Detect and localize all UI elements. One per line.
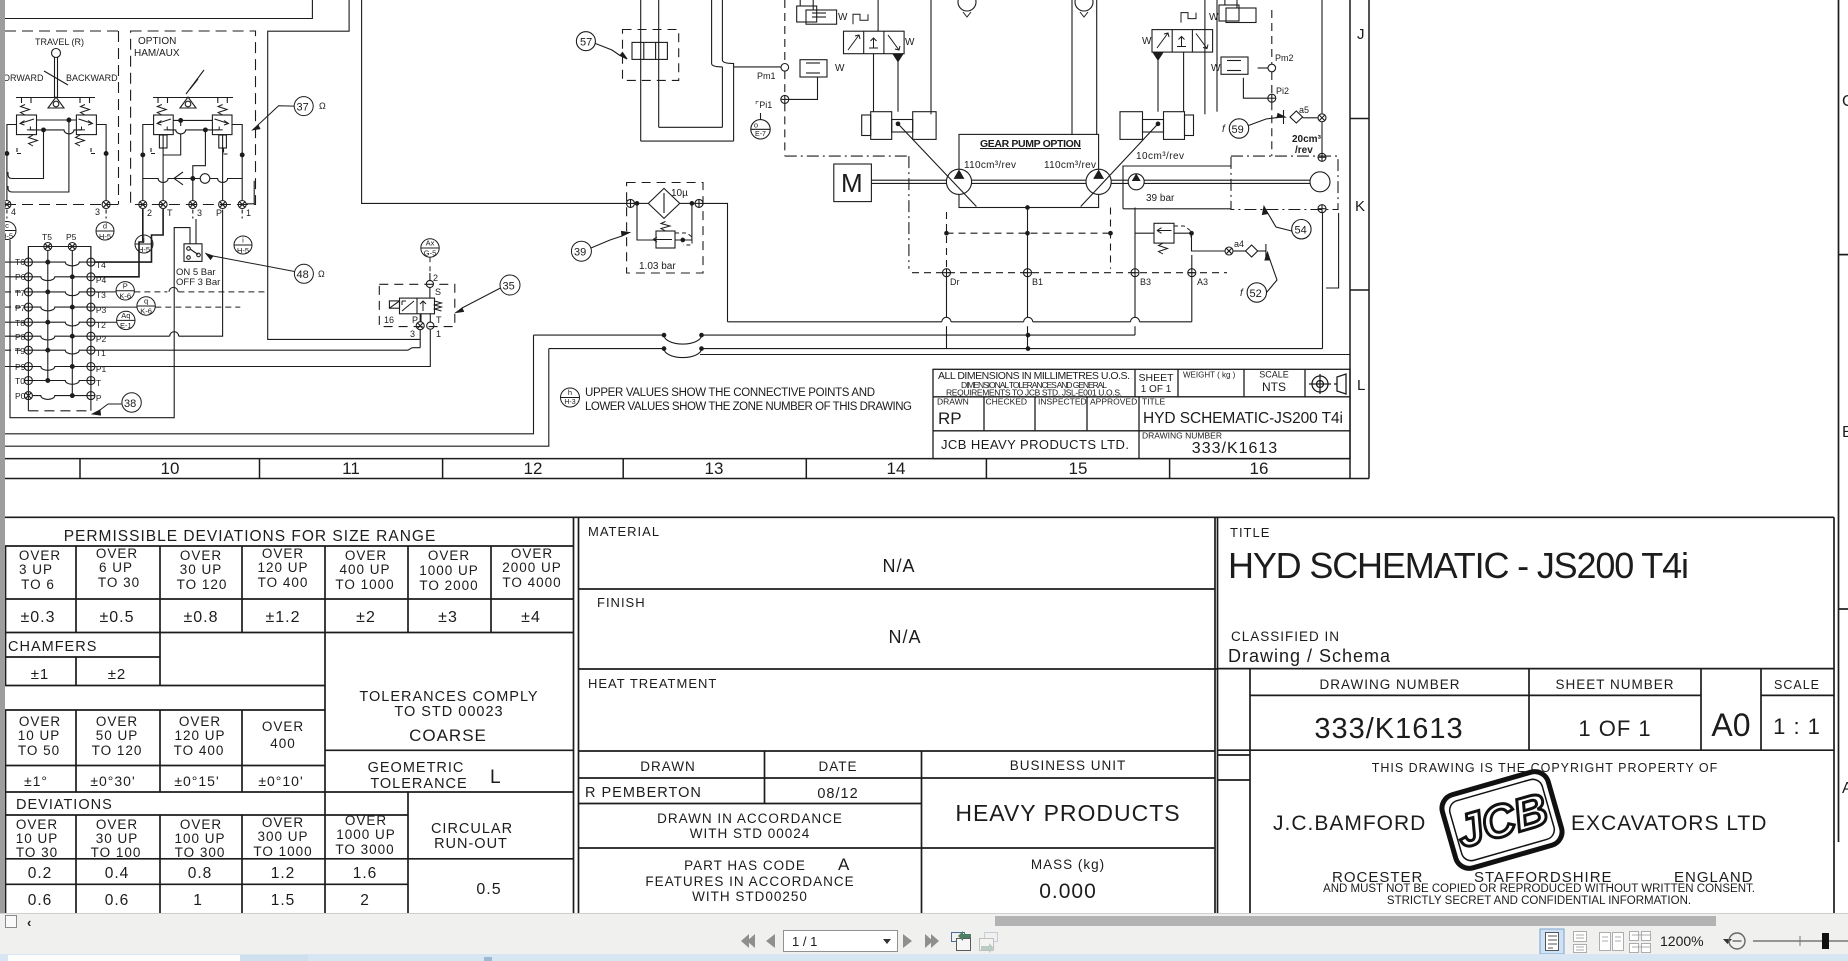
- svg-text:TO 30: TO 30: [98, 575, 140, 590]
- callout circle 37: [253, 97, 314, 130]
- inner drop wires: [8, 120, 69, 192]
- zone letter band separators: [1350, 118, 1369, 120]
- svg-text:Pi2: Pi2: [1276, 86, 1289, 96]
- case drain dashed network: [912, 208, 1227, 273]
- wire to Pm1: [734, 66, 781, 68]
- tank stubs dashed: [151, 148, 229, 154]
- svg-text:G-5: G-5: [424, 249, 437, 258]
- svg-text:NTS: NTS: [1262, 380, 1286, 394]
- svg-text:OVER: OVER: [345, 813, 387, 828]
- svg-text:4: 4: [11, 207, 16, 217]
- svg-text:h: h: [568, 388, 572, 397]
- svg-text:10 UP: 10 UP: [18, 728, 61, 743]
- svg-text:OVER: OVER: [262, 719, 304, 734]
- svg-text:P9: P9: [15, 362, 26, 372]
- svg-text:1 / 1: 1 / 1: [792, 934, 817, 949]
- svg-text:TO 1000: TO 1000: [253, 844, 312, 859]
- port Dr: [943, 269, 951, 277]
- svg-text:TO STD 00023: TO STD 00023: [394, 704, 503, 720]
- zone numbers: [161, 459, 1269, 478]
- svg-text:±1.2: ±1.2: [265, 609, 300, 626]
- middle column box lines: [579, 517, 1218, 913]
- crossbar: [16, 97, 95, 99]
- svg-text:T7: T7: [15, 288, 25, 298]
- top feeds: [877, 0, 879, 31]
- svg-text:TO 30: TO 30: [16, 845, 58, 860]
- svg-text:BACKWARD: BACKWARD: [66, 73, 118, 83]
- connector circle d/H-5: [96, 222, 114, 240]
- svg-text:BUSINESS UNIT: BUSINESS UNIT: [1010, 758, 1127, 773]
- svg-text:OVER: OVER: [179, 714, 221, 729]
- angular tolerance table grid: [5, 710, 574, 792]
- wire T1 to valve35 port P: [95, 330, 420, 350]
- svg-text:SHEET NUMBER: SHEET NUMBER: [1555, 677, 1674, 692]
- connector circle Ax/G-5 above valve35: [421, 239, 439, 257]
- svg-text:52: 52: [1250, 288, 1262, 300]
- Pm2 port: [1268, 64, 1276, 72]
- svg-text:50 UP: 50 UP: [96, 728, 139, 743]
- internal relief: [637, 203, 656, 240]
- connector circle i/H-5: [234, 236, 252, 254]
- svg-text:HYD SCHEMATIC-JS200 T4i: HYD SCHEMATIC-JS200 T4i: [1143, 410, 1343, 427]
- Pm1 port: [781, 64, 789, 72]
- bottom light blue strip: [0, 954, 1848, 961]
- svg-text:AND MUST NOT BE COPIED OR REPR: AND MUST NOT BE COPIED OR REPRODUCED WIT…: [1323, 883, 1755, 895]
- compensator piston top: [797, 6, 817, 22]
- svg-text:FINISH: FINISH: [597, 595, 646, 610]
- svg-text:±1: ±1: [31, 666, 50, 683]
- swash diagonal: [1204, 0, 1206, 114]
- svg-text:OVER: OVER: [262, 815, 304, 830]
- outer port wires: [143, 125, 154, 201]
- svg-text:d: d: [103, 222, 107, 231]
- svg-text:39 bar: 39 bar: [1146, 193, 1175, 204]
- P5 vertical: [71, 251, 73, 396]
- B1 drop wire: [1027, 277, 1029, 349]
- left vertical scrollbar strip: [0, 0, 5, 913]
- svg-text:R PEMBERTON: R PEMBERTON: [585, 785, 702, 801]
- svg-text:SCALE: SCALE: [1259, 370, 1289, 380]
- svg-text:1: 1: [193, 892, 203, 909]
- svg-text:10cm³/rev: 10cm³/rev: [1136, 151, 1184, 162]
- svg-text:L: L: [490, 767, 502, 788]
- dot1 drop to T line: [163, 120, 181, 155]
- svg-text:±2: ±2: [108, 666, 127, 683]
- svg-text:±1°: ±1°: [24, 773, 48, 789]
- svg-text:38: 38: [124, 398, 136, 410]
- pilot pump: [1128, 174, 1144, 190]
- svg-text:OVER: OVER: [262, 546, 304, 561]
- switch wire to big enclosure: [10, 228, 190, 418]
- row T2 connector circle Aq/E-1: [95, 311, 135, 329]
- svg-text:E-1: E-1: [120, 321, 132, 330]
- svg-text:P5: P5: [66, 232, 77, 242]
- dot2 drop to port3: [193, 130, 206, 201]
- pump 2: [1086, 169, 1111, 194]
- svg-text:A3: A3: [1197, 277, 1208, 287]
- callout circle 35: [456, 275, 520, 313]
- svg-text:Aq: Aq: [121, 311, 130, 320]
- svg-text:LOWER VALUES SHOW THE ZONE NUM: LOWER VALUES SHOW THE ZONE NUMBER OF THI…: [585, 401, 912, 413]
- svg-text:T: T: [436, 315, 442, 325]
- svg-text:1000 UP: 1000 UP: [419, 563, 479, 578]
- svg-text:W: W: [1211, 63, 1221, 74]
- drive shaft: [871, 179, 1312, 181]
- A3 riser: [1191, 255, 1193, 269]
- drain triangle: [1154, 53, 1163, 60]
- svg-text:57: 57: [580, 37, 592, 49]
- svg-text:Ω: Ω: [319, 101, 326, 111]
- pilot dashed vertical 2: [1271, 10, 1273, 64]
- svg-text:±0.8: ±0.8: [183, 609, 218, 626]
- svg-text:TO 6: TO 6: [21, 577, 55, 592]
- Pi1 port: [781, 95, 789, 103]
- svg-text:35: 35: [503, 281, 515, 293]
- svg-text:20cm³: 20cm³: [1292, 134, 1322, 145]
- svg-text:WITH STD00250: WITH STD00250: [692, 889, 808, 904]
- filter assembly 39: [627, 183, 704, 274]
- svg-text:±0°10': ±0°10': [258, 773, 303, 789]
- svg-text:A: A: [838, 855, 850, 874]
- svg-text:±0.5: ±0.5: [99, 609, 134, 626]
- svg-text:T9: T9: [15, 346, 25, 356]
- svg-text:400: 400: [270, 736, 296, 751]
- svg-text:0.6: 0.6: [105, 892, 130, 909]
- bottom dashed: [28, 410, 91, 412]
- svg-text:S: S: [435, 287, 441, 297]
- drawing outer border right: [1368, 0, 1370, 479]
- check valve line: [143, 179, 242, 183]
- zoom slider: [1753, 940, 1848, 942]
- svg-text:OVER: OVER: [19, 714, 61, 729]
- bottom toolbar background: [0, 913, 1848, 955]
- gear pump option box: [959, 134, 1099, 207]
- pressure switch 48: [10, 219, 202, 418]
- servo cylinder 1: [862, 115, 871, 136]
- W2 centre wire: [534, 334, 1136, 336]
- svg-text:1.6: 1.6: [353, 865, 378, 882]
- callout circle 48: [206, 254, 313, 284]
- svg-text:T2: T2: [96, 320, 106, 330]
- svg-text:10: 10: [161, 459, 180, 478]
- svg-text:H-5: H-5: [237, 246, 249, 255]
- svg-text:OVER: OVER: [96, 546, 138, 561]
- svg-text:16: 16: [1250, 459, 1269, 478]
- callout circle 38: [93, 393, 142, 415]
- svg-text:W: W: [905, 37, 915, 48]
- svg-text:±2: ±2: [356, 609, 376, 626]
- svg-text:P7: P7: [15, 303, 26, 313]
- svg-text:T: T: [167, 208, 173, 218]
- top boundary wire: [5, 0, 312, 19]
- T5 entry: [44, 243, 52, 251]
- svg-text:c: c: [5, 221, 9, 230]
- svg-text:A: A: [1842, 780, 1848, 797]
- tank stubs dashed: [17, 148, 96, 154]
- svg-text:0.2: 0.2: [28, 865, 53, 882]
- svg-text:STRICTLY SECRET AND CONFIDENTI: STRICTLY SECRET AND CONFIDENTIAL INFORMA…: [1387, 895, 1691, 907]
- svg-text:/rev: /rev: [1295, 145, 1313, 156]
- svg-text:TO 2000: TO 2000: [419, 578, 478, 593]
- svg-text:P: P: [123, 282, 128, 291]
- svg-text:333/K1613: 333/K1613: [1314, 713, 1463, 745]
- svg-text:a4: a4: [1234, 239, 1244, 249]
- callout circle 59 with leader to a5: [1229, 114, 1285, 139]
- svg-text:1.5: 1.5: [271, 892, 296, 909]
- svg-text:OVER: OVER: [428, 548, 470, 563]
- valve 57 body: [632, 42, 667, 59]
- svg-text:CLASSIFIED IN: CLASSIFIED IN: [1231, 629, 1340, 644]
- svg-text:W: W: [1209, 12, 1219, 23]
- svg-text:⌜Pi1: ⌜Pi1: [755, 100, 772, 110]
- svg-text:SCALE: SCALE: [1774, 678, 1820, 692]
- svg-text:INSPECTED: INSPECTED: [1038, 397, 1087, 407]
- svg-text:TO 400: TO 400: [174, 743, 225, 758]
- svg-text:14: 14: [887, 459, 906, 478]
- svg-text:SHEET: SHEET: [1138, 372, 1174, 384]
- svg-text:1.2: 1.2: [271, 865, 296, 882]
- svg-text:1 OF 1: 1 OF 1: [1578, 716, 1651, 741]
- pump drain verticals: [1027, 208, 1029, 269]
- right port wire: [96, 125, 106, 201]
- servo cylinder 2: [1185, 115, 1194, 136]
- svg-text:TRAVEL (R): TRAVEL (R): [35, 37, 84, 47]
- svg-text:1000 UP: 1000 UP: [336, 827, 396, 842]
- svg-text:DEVIATIONS: DEVIATIONS: [16, 797, 113, 813]
- outer body top: [28, 247, 91, 262]
- regulator group 2 (mirror): [1120, 0, 1268, 139]
- svg-text:WITH STD 00024: WITH STD 00024: [690, 826, 811, 841]
- svg-text:RP: RP: [938, 409, 962, 428]
- deviations table: [16, 813, 396, 860]
- svg-text:HYD SCHEMATIC - JS200 T4i: HYD SCHEMATIC - JS200 T4i: [1228, 545, 1690, 586]
- W3 wire: [549, 348, 1323, 350]
- svg-text:Pm1: Pm1: [757, 71, 776, 81]
- svg-text:DRAWN: DRAWN: [937, 397, 969, 407]
- svg-text:±0°30': ±0°30': [90, 773, 135, 789]
- svg-text:0.5: 0.5: [476, 881, 501, 898]
- connector circle h/H-3: [561, 388, 580, 407]
- right edge sliver of adjacent sheet: [1839, 0, 1848, 842]
- svg-text:1 OF 1: 1 OF 1: [1141, 384, 1172, 395]
- pilot valve C: [154, 115, 174, 135]
- wire: long line to filter: [362, 0, 627, 203]
- svg-text:30 UP: 30 UP: [180, 562, 223, 577]
- pilot valve D: [212, 115, 232, 135]
- svg-text:110cm³/rev: 110cm³/rev: [1044, 160, 1096, 171]
- wire upper second: [268, 0, 421, 339]
- svg-text:DRAWN IN ACCORDANCE: DRAWN IN ACCORDANCE: [657, 811, 843, 826]
- svg-text:±3: ±3: [438, 609, 458, 626]
- manifold block 38: [28, 243, 91, 411]
- manifold rows: [5, 258, 95, 400]
- svg-text:P: P: [412, 315, 418, 325]
- svg-text:WEIGHT ( kg ): WEIGHT ( kg ): [1183, 371, 1236, 380]
- svg-text:MATERIAL: MATERIAL: [588, 524, 660, 539]
- svg-text:P2: P2: [96, 334, 107, 344]
- wire A: [5, 335, 534, 434]
- svg-text:2000 UP: 2000 UP: [502, 560, 562, 575]
- feed lines from top to gear pump box: [1071, 0, 1073, 134]
- svg-text:FEATURES IN ACCORDANCE: FEATURES IN ACCORDANCE: [645, 874, 854, 889]
- svg-text:TO 3000: TO 3000: [335, 842, 394, 857]
- svg-text:TO 400: TO 400: [258, 575, 309, 590]
- callout circle 54: [1263, 207, 1312, 239]
- svg-text:1: 1: [436, 329, 441, 339]
- filter outlet wire down to W1: [703, 203, 728, 321]
- svg-text:15: 15: [1069, 459, 1088, 478]
- svg-text:0.4: 0.4: [105, 865, 130, 882]
- top bracket symbol: [853, 14, 868, 24]
- callout circle 52: [1247, 253, 1277, 303]
- nav next page icon: [903, 934, 912, 948]
- svg-text:T1: T1: [96, 348, 106, 358]
- regulator group 1: [797, 0, 936, 139]
- JCB logo: [1439, 768, 1566, 871]
- svg-text:3: 3: [197, 208, 202, 218]
- horizontal scrollbar thumb: [995, 916, 1716, 926]
- engine dashed boundary: [785, 156, 909, 269]
- solenoid valve 35: [379, 273, 455, 330]
- svg-text:P: P: [216, 208, 222, 218]
- page number box: [784, 931, 898, 952]
- svg-text:COARSE: COARSE: [409, 726, 487, 745]
- svg-text:3: 3: [95, 207, 100, 217]
- top edge connector circles: [958, 0, 976, 11]
- port B3: [1131, 269, 1139, 277]
- svg-text:APPROVED: APPROVED: [1090, 397, 1137, 407]
- svg-text:3 UP: 3 UP: [19, 562, 53, 577]
- pilot reducing valve A: [17, 115, 37, 135]
- wire B: [5, 349, 549, 447]
- svg-text:A0: A0: [1711, 707, 1750, 743]
- left tables outer verticals: [573, 517, 575, 913]
- tolerances comply boxes: [325, 749, 574, 751]
- drawing inner border right: [1349, 0, 1351, 479]
- svg-text:ORWARD: ORWARD: [3, 73, 44, 83]
- svg-text:59: 59: [1232, 124, 1244, 136]
- svg-text:M: M: [841, 168, 863, 198]
- svg-text:HAM/AUX: HAM/AUX: [134, 48, 180, 59]
- swash diagonal: [930, 0, 932, 114]
- svg-text:100 UP: 100 UP: [174, 831, 225, 846]
- row T3 connector circle P/K-6: [95, 282, 134, 300]
- top bracket symbol: [1181, 13, 1196, 23]
- ports of option box: [139, 201, 147, 209]
- svg-text:120 UP: 120 UP: [174, 728, 225, 743]
- svg-text:0.8: 0.8: [188, 865, 213, 882]
- wires to Pm2/Pi2: [1258, 67, 1268, 69]
- svg-text:CHECKED: CHECKED: [986, 397, 1028, 407]
- svg-text:333/K1613: 333/K1613: [1192, 440, 1278, 457]
- compensator piston lower: [800, 60, 827, 77]
- svg-text:P8: P8: [15, 332, 26, 342]
- svg-text:110cm³/rev: 110cm³/rev: [964, 160, 1016, 171]
- aux pump in dash-dot box: [1310, 172, 1330, 192]
- svg-text:Dr: Dr: [950, 277, 960, 287]
- svg-text:±0.3: ±0.3: [20, 609, 55, 626]
- pilot pump dash-dot box: [1231, 156, 1338, 209]
- wire from option port1 up corner: [247, 181, 255, 204]
- pump 1: [946, 169, 971, 194]
- svg-text:P: P: [96, 393, 102, 403]
- svg-text:OVER: OVER: [345, 548, 387, 563]
- svg-text:11: 11: [342, 459, 360, 478]
- view mode: continuous: [1574, 932, 1587, 953]
- Pi1 stub: [789, 77, 818, 99]
- svg-text:TO 100: TO 100: [91, 845, 142, 860]
- svg-text:W: W: [1142, 36, 1152, 47]
- svg-text:DRAWN: DRAWN: [640, 759, 696, 774]
- svg-text:TO 50: TO 50: [18, 743, 60, 758]
- svg-text:10 UP: 10 UP: [16, 831, 59, 846]
- svg-text:T: T: [96, 378, 101, 388]
- T5 vertical: [47, 251, 49, 382]
- callout circle 39: [571, 232, 629, 262]
- Pi2 port: [1268, 94, 1276, 102]
- connector circle c/H-5: [0, 222, 16, 240]
- port B1: [1024, 269, 1032, 277]
- svg-text:300 UP: 300 UP: [257, 829, 308, 844]
- svg-text:‹: ‹: [27, 915, 31, 930]
- view mode: facing: [1600, 933, 1624, 951]
- scrollbar left corner box: [6, 916, 17, 928]
- svg-text:B: B: [1842, 424, 1848, 441]
- svg-text:2: 2: [147, 208, 152, 218]
- svg-text:P0: P0: [15, 391, 26, 401]
- svg-text:39: 39: [574, 247, 586, 259]
- svg-text:K: K: [1355, 198, 1365, 215]
- connector circle j/H-5: [135, 235, 153, 253]
- joystick 1: [52, 49, 61, 58]
- pilot pump solid enclosure: [1123, 166, 1231, 209]
- svg-text:N/A: N/A: [882, 556, 915, 576]
- svg-text:10µ: 10µ: [671, 188, 688, 199]
- svg-text:T0: T0: [15, 376, 25, 386]
- svg-text:JCB HEAVY PRODUCTS LTD.: JCB HEAVY PRODUCTS LTD.: [941, 437, 1129, 452]
- svg-text:H-5: H-5: [99, 232, 111, 241]
- svg-text:OVER: OVER: [511, 546, 553, 561]
- ports: [3, 201, 11, 209]
- svg-text:T6: T6: [15, 257, 25, 267]
- big boundary bottom line: [700, 354, 1350, 356]
- long bottom wires: [5, 277, 1323, 447]
- svg-text:N/A: N/A: [888, 627, 921, 647]
- svg-text:C: C: [1842, 93, 1848, 110]
- double pipe loop from valve57: [640, 0, 642, 141]
- svg-text:1 : 1: 1 : 1: [1773, 714, 1821, 739]
- svg-text:GEAR PUMP OPTION: GEAR PUMP OPTION: [980, 138, 1081, 150]
- M box: [834, 164, 872, 202]
- svg-text:L: L: [1357, 377, 1365, 394]
- port A3: [1188, 269, 1196, 277]
- svg-text:P1: P1: [96, 364, 107, 374]
- wires T4 P4 routing up to option ports: [95, 209, 163, 277]
- svg-text:CIRCULAR: CIRCULAR: [431, 821, 513, 837]
- svg-text:GEOMETRIC: GEOMETRIC: [368, 760, 465, 776]
- port P vertical: [222, 148, 224, 201]
- bottom: solenoid-drain triangle: [894, 55, 903, 62]
- svg-text:TO 300: TO 300: [175, 845, 226, 860]
- dashed stubs below ports: [193, 210, 242, 219]
- svg-text:16: 16: [384, 315, 394, 325]
- svg-text:TITLE: TITLE: [1230, 525, 1270, 540]
- row P3 connector circle q/K-6: [95, 297, 155, 315]
- svg-text:08/12: 08/12: [817, 786, 858, 802]
- svg-text:Drawing / Schema: Drawing / Schema: [1228, 646, 1391, 666]
- joystick 2 (lever): [186, 70, 204, 94]
- svg-text:Ω: Ω: [318, 269, 325, 279]
